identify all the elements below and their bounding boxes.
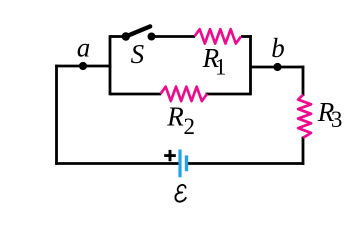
svg-text:b: b xyxy=(271,33,285,63)
switch S: left contact dot xyxy=(122,32,130,40)
svg-text:1: 1 xyxy=(215,55,227,80)
resistor R3 zigzag (vertical) xyxy=(298,95,311,138)
wire: switch right dot to R1 left end xyxy=(152,35,196,38)
wire: right vertical lower segment below R3 xyxy=(302,137,305,165)
wire: bottom branch left segment to R2 xyxy=(110,93,161,96)
node b junction dot xyxy=(273,63,281,71)
resistor R1 zigzag xyxy=(195,29,242,43)
battery EMF source: long (+) plate xyxy=(178,150,181,178)
svg-text:3: 3 xyxy=(331,107,343,132)
svg-text:a: a xyxy=(77,33,91,63)
battery EMF source: short (-) plate xyxy=(185,155,188,171)
switch S: lever arm xyxy=(126,26,150,36)
label + (battery polarity) xyxy=(164,150,176,161)
wire: left vertical from node a down to bottom-left corner xyxy=(55,65,58,165)
svg-text:R: R xyxy=(166,102,184,132)
wire: top branch stub to switch left dot xyxy=(110,35,126,38)
wire: top-left horizontal from left corner through node a to inner rect xyxy=(55,65,111,68)
svg-text:2: 2 xyxy=(184,114,196,139)
wire: inner rectangle right side xyxy=(249,35,252,95)
wire: bottom wire left segment to battery xyxy=(55,162,178,165)
wire: inner rectangle left side xyxy=(109,35,112,95)
label script-E EMF xyxy=(175,185,185,202)
wire: R1 right end to top-right inner corner xyxy=(241,35,252,38)
svg-text:S: S xyxy=(131,39,145,69)
wire: from inner rect right side through node b to right vertical xyxy=(251,66,305,69)
switch S: right contact dot xyxy=(148,33,156,41)
resistor R2 zigzag xyxy=(161,87,208,101)
wire: bottom wire right segment from battery xyxy=(188,162,304,165)
wire: right vertical upper segment above R3 xyxy=(302,66,305,96)
node a junction dot xyxy=(79,62,87,70)
wire: R2 right end to bottom-right inner corner xyxy=(206,93,251,96)
